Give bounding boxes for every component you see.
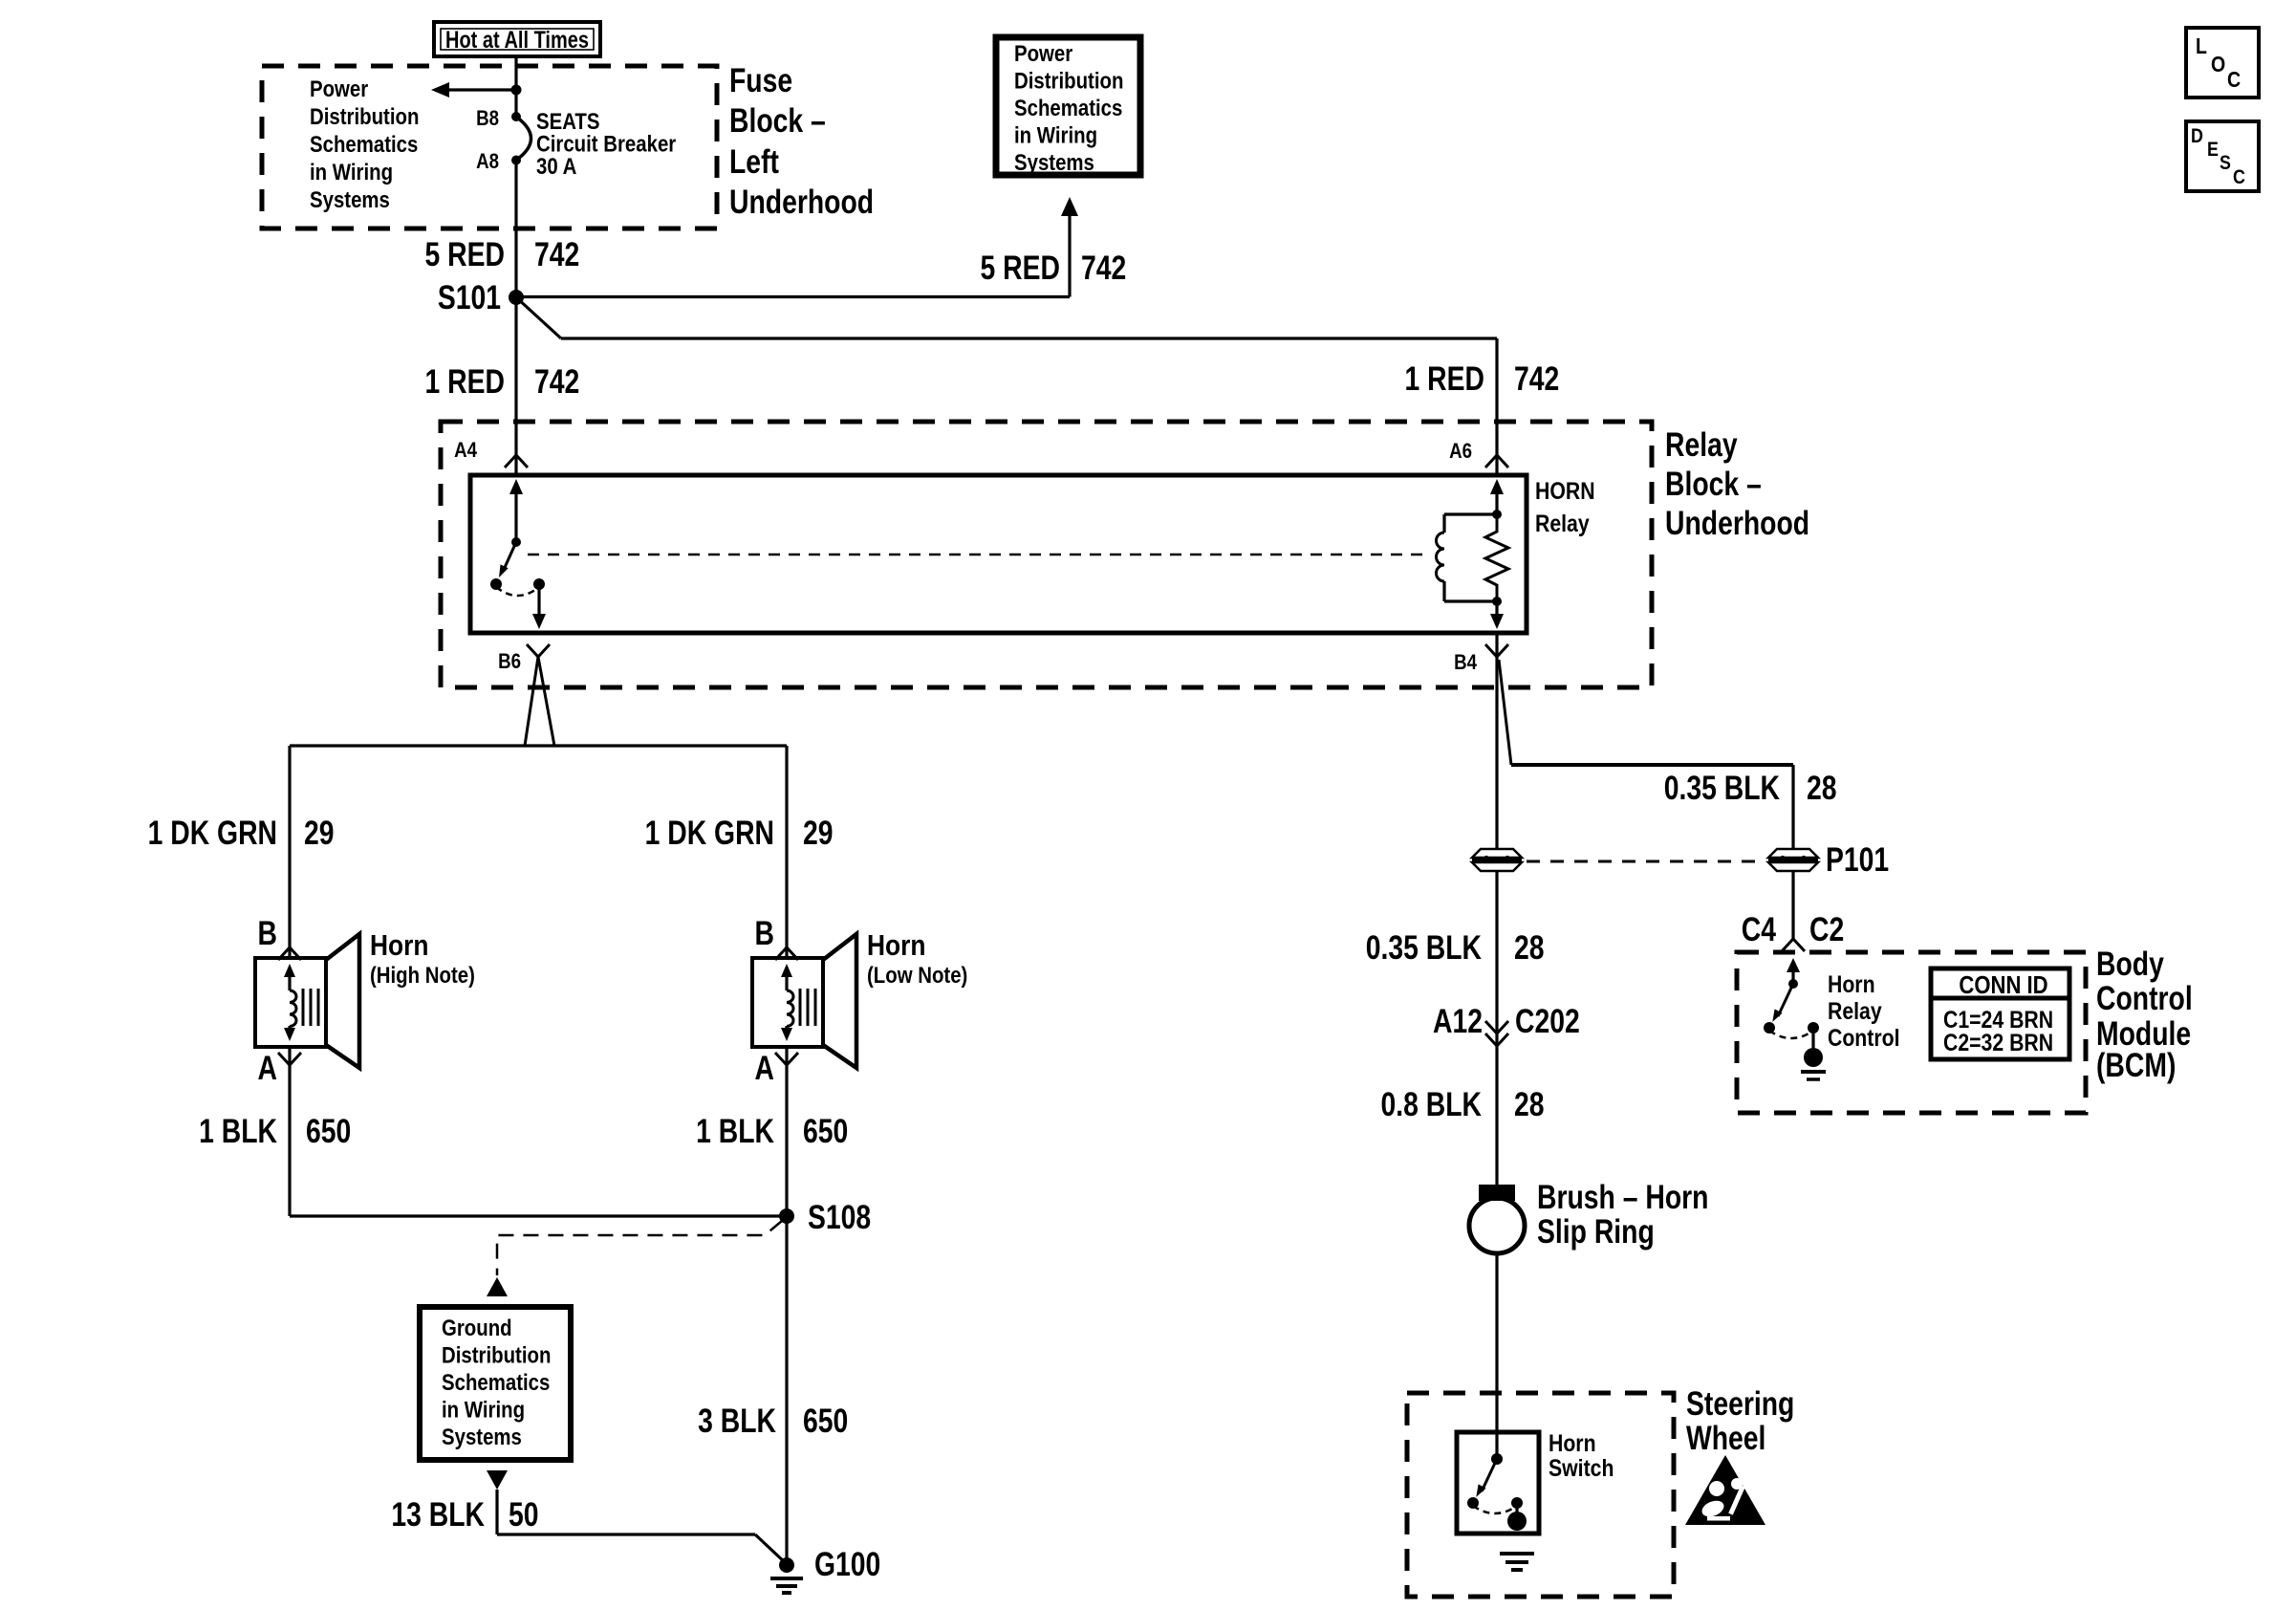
svg-text:B8: B8	[476, 108, 499, 131]
svg-text:650: 650	[803, 1402, 848, 1440]
svg-text:28: 28	[1807, 769, 1837, 807]
svg-text:1 DK GRN: 1 DK GRN	[148, 814, 277, 852]
svg-text:Relay: Relay	[1535, 510, 1590, 536]
svg-text:Block –: Block –	[1665, 465, 1762, 503]
svg-text:1 BLK: 1 BLK	[199, 1112, 277, 1150]
svg-text:Ground: Ground	[442, 1315, 512, 1340]
svg-text:B: B	[258, 914, 277, 952]
svg-text:Distribution: Distribution	[442, 1342, 551, 1368]
svg-text:Horn: Horn	[370, 929, 428, 962]
svg-text:0.35 BLK: 0.35 BLK	[1366, 928, 1482, 967]
svg-text:Schematics: Schematics	[1014, 95, 1122, 120]
svg-text:A: A	[755, 1049, 774, 1087]
svg-text:(High Note): (High Note)	[370, 962, 475, 988]
svg-text:Power: Power	[310, 76, 369, 101]
svg-text:Horn: Horn	[1828, 970, 1875, 997]
svg-text:A12: A12	[1433, 1002, 1483, 1040]
svg-text:Wheel: Wheel	[1686, 1419, 1765, 1457]
svg-text:Left: Left	[729, 142, 779, 181]
svg-text:3 BLK: 3 BLK	[698, 1402, 776, 1440]
svg-text:S108: S108	[808, 1198, 871, 1236]
svg-text:E: E	[2207, 139, 2219, 162]
svg-text:Horn: Horn	[867, 929, 925, 962]
svg-text:5 RED: 5 RED	[425, 235, 505, 273]
svg-text:A6: A6	[1449, 441, 1472, 464]
svg-text:13 BLK: 13 BLK	[391, 1495, 485, 1534]
svg-text:Schematics: Schematics	[442, 1369, 550, 1395]
svg-text:L: L	[2196, 34, 2207, 59]
svg-text:in Wiring: in Wiring	[310, 159, 393, 185]
svg-text:CONN ID: CONN ID	[1959, 971, 2047, 999]
svg-text:Distribution: Distribution	[310, 103, 419, 129]
svg-text:1 DK GRN: 1 DK GRN	[645, 814, 774, 852]
svg-text:S101: S101	[438, 278, 501, 316]
svg-text:P101: P101	[1826, 840, 1889, 879]
svg-text:Horn: Horn	[1549, 1429, 1596, 1456]
svg-text:C2: C2	[1809, 910, 1844, 948]
svg-text:G100: G100	[814, 1545, 880, 1583]
svg-text:1 RED: 1 RED	[425, 362, 505, 401]
svg-text:A4: A4	[454, 440, 477, 463]
svg-text:742: 742	[534, 362, 579, 401]
svg-text:28: 28	[1514, 1085, 1545, 1123]
svg-text:28: 28	[1514, 928, 1545, 967]
svg-text:742: 742	[534, 235, 579, 273]
svg-text:C2=32 BRN: C2=32 BRN	[1943, 1029, 2053, 1055]
svg-text:in Wiring: in Wiring	[1014, 122, 1097, 148]
svg-text:Control: Control	[2096, 979, 2193, 1017]
svg-text:D: D	[2191, 125, 2203, 148]
svg-text:30 A: 30 A	[536, 153, 576, 179]
svg-text:(BCM): (BCM)	[2096, 1046, 2176, 1084]
svg-text:HORN: HORN	[1535, 477, 1595, 504]
svg-text:0.8 BLK: 0.8 BLK	[1381, 1085, 1482, 1123]
svg-text:B4: B4	[1454, 652, 1477, 675]
svg-text:1 BLK: 1 BLK	[696, 1112, 774, 1150]
svg-text:Distribution: Distribution	[1014, 68, 1123, 94]
svg-text:1 RED: 1 RED	[1405, 359, 1484, 398]
svg-text:C202: C202	[1515, 1002, 1580, 1040]
svg-text:S: S	[2220, 152, 2231, 175]
svg-text:0.35 BLK: 0.35 BLK	[1664, 769, 1780, 807]
svg-text:Relay: Relay	[1828, 997, 1882, 1024]
svg-text:Body: Body	[2096, 945, 2164, 983]
svg-text:O: O	[2211, 53, 2225, 77]
svg-text:Underhood: Underhood	[1665, 504, 1809, 542]
svg-text:Underhood: Underhood	[729, 183, 874, 221]
svg-text:Schematics: Schematics	[310, 131, 418, 157]
svg-text:Systems: Systems	[310, 186, 390, 212]
svg-text:650: 650	[306, 1112, 351, 1150]
svg-text:(Low Note): (Low Note)	[867, 962, 967, 988]
svg-text:Control: Control	[1828, 1024, 1900, 1051]
svg-text:C4: C4	[1742, 910, 1776, 948]
svg-text:Brush – Horn: Brush – Horn	[1537, 1178, 1708, 1216]
svg-text:Fuse: Fuse	[729, 61, 792, 99]
svg-text:650: 650	[803, 1112, 848, 1150]
svg-text:Switch: Switch	[1549, 1454, 1614, 1481]
svg-text:Systems: Systems	[1014, 149, 1094, 175]
svg-text:29: 29	[803, 814, 834, 852]
svg-text:in Wiring: in Wiring	[442, 1397, 525, 1423]
svg-text:50: 50	[509, 1495, 539, 1534]
svg-text:B: B	[755, 914, 774, 952]
svg-text:A: A	[258, 1049, 277, 1087]
svg-text:B6: B6	[498, 651, 521, 674]
svg-text:29: 29	[304, 814, 335, 852]
svg-text:Relay: Relay	[1665, 425, 1738, 464]
svg-text:Hot at All Times: Hot at All Times	[445, 27, 589, 54]
svg-text:5 RED: 5 RED	[981, 249, 1060, 287]
svg-text:Power: Power	[1014, 40, 1073, 66]
svg-text:Systems: Systems	[442, 1424, 522, 1449]
svg-text:742: 742	[1081, 249, 1126, 287]
svg-text:C: C	[2233, 166, 2245, 189]
svg-text:742: 742	[1514, 359, 1559, 398]
svg-text:C: C	[2227, 68, 2241, 93]
svg-text:Block –: Block –	[729, 101, 826, 140]
svg-text:A8: A8	[476, 151, 499, 174]
svg-text:Slip Ring: Slip Ring	[1537, 1212, 1655, 1251]
svg-text:Steering: Steering	[1686, 1384, 1794, 1423]
